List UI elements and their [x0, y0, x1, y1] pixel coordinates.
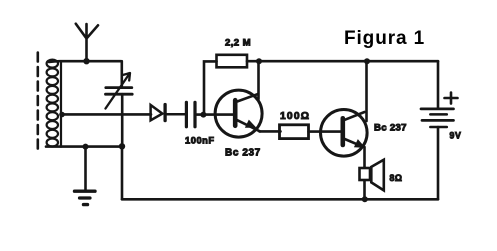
speaker 8ohm	[360, 160, 384, 191]
ground	[75, 144, 96, 205]
transistor Q2 BC237	[321, 61, 368, 156]
battery B1 9V	[421, 61, 458, 199]
svg-text:Figura 1: Figura 1	[344, 28, 425, 49]
node Q2 collector rail	[364, 58, 370, 64]
resistor R1 2,2M	[204, 55, 259, 115]
svg-text:100nF: 100nF	[185, 135, 215, 145]
node R1/collector/rail	[256, 58, 262, 64]
svg-text:9V: 9V	[450, 131, 462, 141]
wire Q2 emitter to speaker	[363, 147, 366, 199]
wire coil bottom	[46, 145, 122, 148]
svg-text:Bc 237: Bc 237	[374, 123, 407, 134]
ferrite core dashed line	[36, 53, 39, 151]
resistor R2 100ohm	[280, 125, 309, 139]
wire tap to diode	[62, 113, 151, 116]
transistor Q1 BC237	[215, 61, 280, 137]
variable capacitor CV	[106, 61, 133, 146]
svg-text:8Ω: 8Ω	[390, 173, 403, 183]
node coil/cv bottom junction	[119, 143, 125, 149]
wire top rail	[259, 60, 438, 63]
antenna	[76, 24, 98, 65]
svg-text:2,2 M: 2,2 M	[225, 37, 251, 48]
capacitor C1 100nF	[186, 102, 234, 127]
node base Q1	[200, 112, 206, 118]
diode D1	[151, 105, 186, 121]
node coil tap	[59, 112, 65, 118]
wire bottom rail	[122, 198, 438, 201]
node speaker bottom	[362, 196, 368, 202]
coil L1	[47, 60, 61, 147]
svg-text:100Ω: 100Ω	[280, 111, 310, 122]
svg-text:Bc 237: Bc 237	[225, 148, 261, 159]
wire left drop to bottom rail	[121, 146, 124, 199]
wire top-left rail	[49, 60, 121, 63]
